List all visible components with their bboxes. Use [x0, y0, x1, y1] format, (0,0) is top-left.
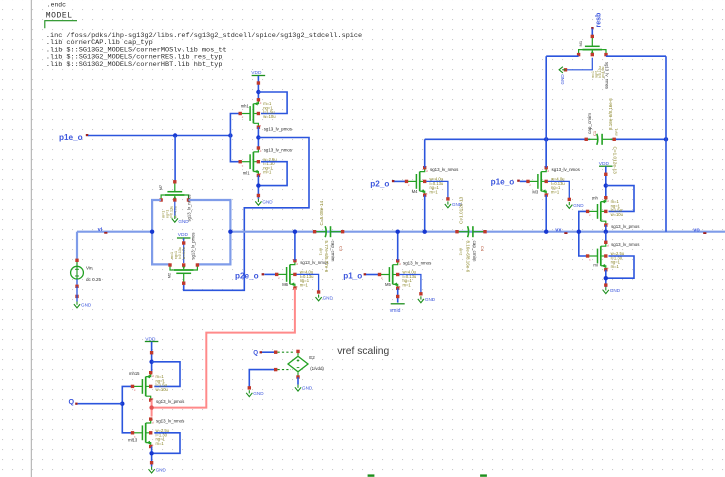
- svg-text:mi: mi: [593, 262, 597, 267]
- wire inverter input rail: [230, 114, 240, 162]
- ground at M7 bulk: [174, 216, 176, 219]
- junction mi source: [604, 276, 608, 280]
- wire inverter output node: [257, 127, 259, 147]
- sheet border line: [30, 0, 32, 477]
- wire E2 out to GND: [297, 377, 299, 385]
- wire M4 bulk to GND: [426, 181, 448, 199]
- wire M1 drain to left rail: [546, 55, 578, 57]
- junction Q wire at gates rail: [120, 402, 124, 406]
- svg-text:p1e_o: p1e_o: [59, 133, 83, 142]
- wire bus right segment vx to vo: [230, 231, 725, 233]
- svg-text:Q: Q: [69, 397, 75, 406]
- svg-text:GND: GND: [262, 200, 273, 205]
- svg-text:sg13_lv_pmos: sg13_lv_pmos: [611, 224, 640, 229]
- junction inverter output: [256, 135, 260, 139]
- svg-text:vref scaling: vref scaling: [337, 346, 389, 357]
- svg-text:vo: vo: [693, 227, 700, 233]
- svg-text:w=4.0u: w=4.0u: [182, 247, 186, 259]
- junction p1e_o to M7 gate: [173, 133, 177, 137]
- dashed wire to E2 plus input: [278, 351, 294, 353]
- svg-text:m=1: m=1: [430, 189, 439, 194]
- svg-text:cap_cmim: cap_cmim: [472, 241, 477, 262]
- ground at M6 bulk: [318, 295, 320, 298]
- wire resb to M1 gate: [591, 29, 593, 37]
- transistor M1 sg13_lv_nmos (reset): [591, 36, 593, 46]
- svg-text:vmid: vmid: [390, 308, 401, 314]
- wire mi source to GND: [605, 270, 607, 288]
- svg-text:M6: M6: [282, 282, 288, 287]
- svg-text:vx: vx: [555, 227, 562, 233]
- junction mh source rect: [604, 183, 608, 187]
- svg-text:C3: C3: [339, 246, 344, 252]
- svg-text:w=10u: w=10u: [611, 212, 624, 217]
- svg-text:Vin: Vin: [86, 265, 93, 270]
- transistor mh sg13_lv_pmos: [588, 210, 598, 212]
- svg-text:C=1.012e-13: C=1.012e-13: [458, 196, 463, 224]
- svg-text:Q: Q: [253, 350, 258, 357]
- wire red net M6 source down: [152, 288, 295, 407]
- supply label vmid: [391, 303, 405, 305]
- transistor M3 sg13_lv_nmos: [528, 180, 538, 182]
- svg-text:ml13: ml13: [128, 438, 138, 443]
- wire M3 source to bus: [545, 195, 547, 232]
- ground at M3 bulk: [568, 202, 570, 205]
- wire Q rail to inverter gates: [122, 386, 132, 432]
- wire M5 source to vmid: [397, 288, 399, 302]
- svg-text:p2_o: p2_o: [370, 179, 389, 188]
- svg-text:M3: M3: [532, 190, 538, 195]
- green mark 2: [480, 474, 487, 476]
- svg-text:GND: GND: [302, 386, 313, 391]
- svg-text:C4: C4: [480, 246, 485, 252]
- svg-text:GND: GND: [610, 288, 621, 293]
- svg-text:C=1.012e-13: C=1.012e-13: [613, 147, 618, 175]
- junction p1e_o to inverter input: [228, 133, 232, 137]
- junction M6 drain: [293, 230, 297, 234]
- svg-text:p2e_o: p2e_o: [235, 271, 259, 280]
- wire p2e_o to M6 gate: [264, 273, 276, 275]
- wire ml1 source to GND: [257, 175, 259, 198]
- wire p2_o to M4 gate: [394, 180, 406, 182]
- wire Q to gates rail: [78, 403, 123, 405]
- svg-text:m=1: m=1: [263, 170, 272, 175]
- junction mh15 source rect: [149, 360, 153, 364]
- transistor ml13 sg13_lv_nmos: [133, 432, 143, 434]
- wire M1 drain rail down to M3 drain: [545, 56, 547, 167]
- svg-text:sg13_lv_nmos: sg13_lv_nmos: [156, 419, 185, 424]
- svg-text:E2: E2: [309, 355, 315, 360]
- wire ml1 bulk rect: [258, 162, 287, 186]
- wire mi bulk rect: [606, 256, 634, 278]
- wire red net inverter output: [151, 400, 153, 416]
- wire T-gate right rail: [189, 200, 231, 264]
- junction red net tap: [149, 405, 153, 409]
- junction mh1 source/bulk rect: [256, 90, 260, 94]
- transistor M6 sg13_lv_nmos: [277, 273, 287, 275]
- svg-text:mh1: mh1: [241, 104, 250, 109]
- svg-text:w=10u: w=10u: [263, 114, 276, 119]
- svg-text:sg13_lv_nmos: sg13_lv_nmos: [186, 194, 191, 221]
- wire vi bus left segment: [77, 231, 152, 233]
- wire E2 minus to GND: [249, 370, 275, 389]
- svg-text:sg13_lv_nmos: sg13_lv_nmos: [552, 167, 581, 172]
- wire M4 source to bus: [424, 195, 426, 231]
- svg-text:.lib $::SG13G2_MODELS/cornerHB: .lib $::SG13G2_MODELS/cornerHBT.lib hbt_…: [46, 61, 223, 69]
- svg-text:GND: GND: [425, 297, 436, 302]
- wire M6 bulk to GND: [297, 274, 319, 292]
- green bracket under MODEL: [45, 21, 77, 29]
- svg-text:cap_cmim: cap_cmim: [587, 113, 592, 134]
- ground below Vin: [76, 302, 78, 305]
- capacitor C3 cap_cmim: [315, 231, 327, 233]
- capacitor C4 cap_cmim: [457, 231, 469, 233]
- svg-text:GND: GND: [573, 203, 584, 208]
- wire VDD to mh source: [605, 166, 607, 198]
- svg-text:m=2: m=2: [458, 248, 462, 255]
- ground below mi: [605, 287, 607, 290]
- vcvs E2 (1/vdd): [288, 356, 308, 372]
- svg-text:sg13_lv_nmos: sg13_lv_nmos: [611, 242, 640, 247]
- junction ml1 source: [256, 183, 260, 187]
- wire top net M4 to C1: [425, 138, 591, 140]
- svg-text:GND: GND: [81, 302, 92, 307]
- svg-text:sg13_lv_pmos: sg13_lv_pmos: [264, 126, 293, 131]
- wire T-gate left rail: [152, 200, 170, 264]
- wire vi drop to Vin: [76, 232, 78, 260]
- svg-text:m=1: m=1: [611, 264, 620, 269]
- wire p1_o to M5 gate: [366, 274, 380, 276]
- ground at M4 bulk: [447, 201, 449, 204]
- svg-text:.endc: .endc: [47, 1, 66, 8]
- ground below ml1: [257, 199, 259, 202]
- capacitor C1 cap_cmim: [586, 138, 598, 140]
- svg-text:M1: M1: [578, 40, 583, 46]
- junction M5 drain: [396, 230, 400, 234]
- junction top net at M1/M3 rail: [544, 137, 548, 141]
- svg-text:sg13_lv_nmos: sg13_lv_nmos: [403, 260, 432, 265]
- svg-text:mh15: mh15: [129, 371, 140, 376]
- svg-text:m=1: m=1: [614, 128, 618, 135]
- junction M3 source: [544, 230, 548, 234]
- svg-text:M7: M7: [158, 184, 163, 190]
- dashed wire to E2 minus input: [278, 369, 292, 371]
- svg-text:sg13_lv_nmos: sg13_lv_nmos: [264, 148, 293, 153]
- svg-text:m=1: m=1: [318, 248, 322, 255]
- wire M6 drain to bus: [294, 232, 296, 261]
- svg-text:8.16e-6/8.16e-6: 8.16e-6/8.16e-6: [608, 98, 613, 130]
- transistor mi sg13_lv_nmos: [588, 255, 598, 257]
- transistor M4 sg13_lv_nmos: [407, 180, 417, 182]
- svg-text:M5: M5: [385, 282, 391, 287]
- svg-text:vi: vi: [98, 227, 103, 233]
- svg-text:m=1: m=1: [403, 282, 412, 287]
- svg-text:MODEL: MODEL: [46, 12, 73, 21]
- svg-text:C1: C1: [592, 130, 597, 136]
- wire ml13 bulk rect: [152, 433, 180, 454]
- transistor ml1 sg13_lv_nmos: [240, 161, 250, 163]
- svg-text:M2: M2: [166, 272, 171, 278]
- svg-text:GND: GND: [323, 295, 334, 300]
- wire ml13 source to GND: [151, 447, 153, 467]
- svg-text:p1_o: p1_o: [343, 271, 362, 280]
- svg-text:GND: GND: [560, 74, 565, 85]
- wire vx to inverter gates: [579, 211, 588, 256]
- junction bus right rail: [228, 230, 232, 234]
- svg-text:sg13_lv_pmos: sg13_lv_pmos: [156, 399, 185, 404]
- green mark 1: [368, 474, 375, 476]
- svg-text:GND: GND: [253, 391, 264, 396]
- svg-text:resb: resb: [596, 13, 603, 28]
- svg-text:mh: mh: [592, 196, 598, 201]
- svg-text:VDD: VDD: [178, 232, 189, 238]
- svg-text:m=1: m=1: [300, 282, 309, 287]
- wire right rail down to bus: [665, 56, 667, 232]
- transistor M7 sg13_lv_nmos (pass gate top): [174, 182, 176, 192]
- svg-text:5.77e-6/5.77e-6: 5.77e-6/5.77e-6: [324, 241, 329, 273]
- svg-text:GND: GND: [156, 467, 167, 472]
- svg-text:8.16e-6/8.16e-6: 8.16e-6/8.16e-6: [465, 241, 470, 273]
- junction mh drain at bus: [604, 230, 608, 234]
- voltage source Vin: [76, 260, 78, 266]
- pin mark p1e_o: [86, 134, 89, 136]
- transistor mh1 sg13_lv_pmos: [240, 113, 250, 115]
- wire M5 bulk to GND: [399, 275, 421, 295]
- transistor M5 sg13_lv_nmos: [380, 274, 390, 276]
- wire M1 bulk to GND: [566, 58, 593, 70]
- wire M7 bulk to GND: [174, 202, 176, 216]
- svg-text:ml1: ml1: [243, 171, 250, 176]
- wire p1e_o to M3 gate: [520, 180, 528, 182]
- wire mh bulk rect: [606, 186, 634, 212]
- svg-text:GND: GND: [178, 219, 189, 224]
- junction top net at right rail: [664, 137, 668, 141]
- ground at M1 bulk (rotated): [562, 69, 565, 71]
- wire M4 drain up: [424, 139, 426, 167]
- svg-text:sg13_lv_pmos: sg13_lv_pmos: [191, 232, 196, 259]
- wire mh15 bulk rect: [152, 362, 180, 387]
- wire VDD to mh1 source: [257, 76, 259, 101]
- junction M4 source: [423, 230, 427, 234]
- wire inverter output to M2 gate: [184, 138, 309, 291]
- svg-text:m=1: m=1: [156, 441, 165, 446]
- svg-text:w=10u: w=10u: [156, 387, 169, 392]
- wire Q to E2 plus: [262, 351, 276, 353]
- wire M3 drain up: [545, 139, 547, 167]
- svg-text:cap_cmim: cap_cmim: [331, 241, 336, 262]
- svg-text:m=1: m=1: [551, 189, 560, 194]
- wire VDD to mh15 source: [151, 342, 153, 373]
- wire M7 gate drop: [174, 136, 176, 182]
- transistor M2 sg13_lv_pmos (pass gate bottom): [183, 274, 185, 284]
- junction gates rail at bus: [577, 230, 581, 234]
- svg-text:p1e_o: p1e_o: [491, 178, 515, 187]
- wire C1 to right rail: [611, 138, 666, 140]
- wire mh drain to bus: [605, 225, 607, 232]
- svg-text:sg13_lv_nmos: sg13_lv_nmos: [605, 62, 610, 89]
- svg-text:M4: M4: [412, 189, 418, 194]
- wire M1 source to right rail: [606, 55, 666, 57]
- ground below ml13: [151, 467, 153, 470]
- svg-text:C=5.08e-14: C=5.08e-14: [319, 200, 324, 225]
- junction bus left rail: [150, 230, 154, 234]
- svg-text:dc 0.25: dc 0.25: [86, 277, 102, 282]
- svg-text:(1/vdd): (1/vdd): [310, 366, 324, 371]
- junction ml13 source: [149, 451, 153, 455]
- wire M3 bulk to GND: [548, 181, 570, 199]
- svg-text:sg13_lv_nmos: sg13_lv_nmos: [430, 167, 459, 172]
- wire p1e_o horizontal: [88, 135, 230, 137]
- wire mh1 bulk rect: [258, 92, 287, 114]
- wire M5 drain to bus: [397, 232, 399, 261]
- ground below E2: [297, 385, 299, 388]
- ground at M5 bulk: [420, 296, 422, 299]
- transistor mh15 sg13_lv_pmos: [133, 385, 143, 387]
- ground at E2 minus: [248, 390, 250, 393]
- wire bus to mi drain: [605, 232, 607, 243]
